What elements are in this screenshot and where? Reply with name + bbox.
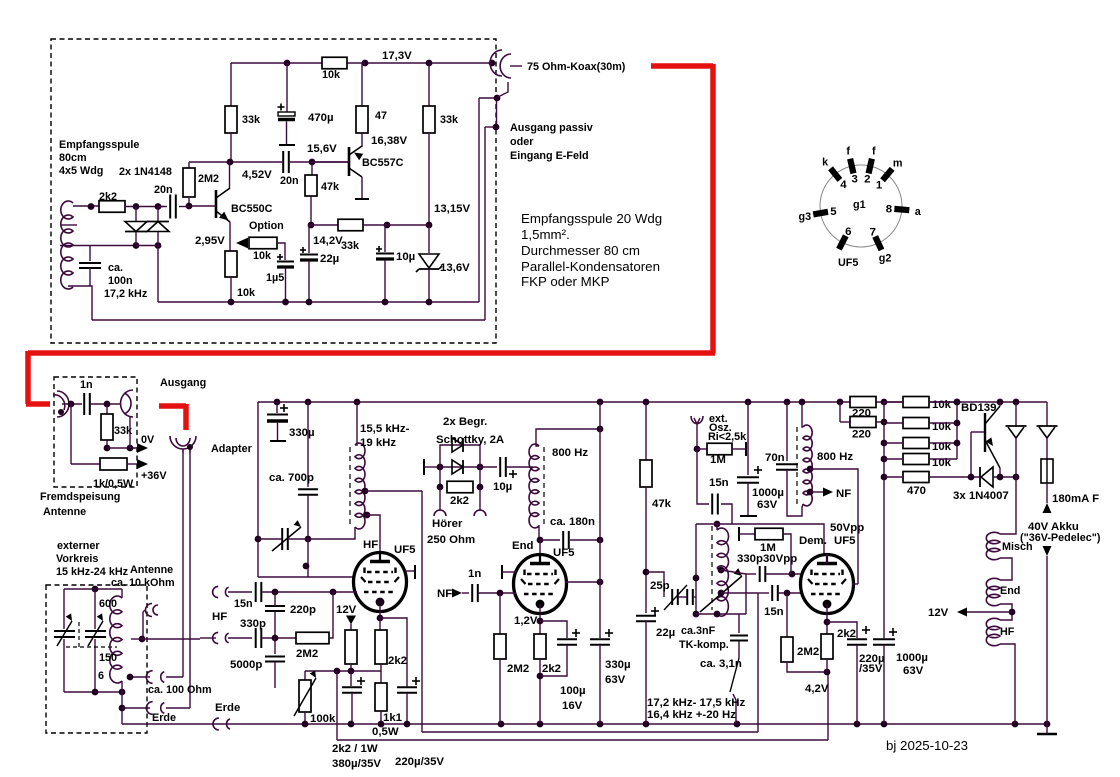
wire return rail 3 xyxy=(337,739,828,741)
svg-text:4x5 Wdg: 4x5 Wdg xyxy=(59,165,103,177)
plus sign 220u35 xyxy=(862,629,870,631)
wire top rail 17,3V xyxy=(231,62,322,64)
node 2k2 lim right xyxy=(477,484,484,491)
node base-diode row xyxy=(968,474,975,481)
node gnd 2k2 End xyxy=(537,721,544,728)
wire ausgang stub xyxy=(485,126,496,128)
terminal bar 1M dem xyxy=(738,527,740,541)
svg-text:15,6V: 15,6V xyxy=(307,143,337,155)
wire 1M dem left xyxy=(739,533,755,535)
capacitor C 1u5 xyxy=(277,261,294,263)
wire rail3 riser right xyxy=(827,672,829,740)
wire 25p-3nF link xyxy=(678,596,687,598)
svg-text:Empfangsspule 20 Wdg: Empfangsspule 20 Wdg xyxy=(521,211,662,226)
plus sign 10u End xyxy=(509,473,517,475)
resistor R 470 xyxy=(903,472,929,483)
wire diode to nodes xyxy=(993,476,1016,478)
wire 33k1 bottom lead xyxy=(230,133,232,162)
svg-text:4,52V: 4,52V xyxy=(242,169,272,181)
arrowhead BC550C emitter xyxy=(219,212,229,221)
svg-text:f: f xyxy=(846,145,850,157)
wire 220u bottom lead xyxy=(406,693,408,724)
wire BC550C emitter lead xyxy=(229,222,231,251)
wire BC550C collector riser xyxy=(229,162,231,188)
wire 10kp1 leads xyxy=(884,401,903,403)
svg-text:Dem.: Dem. xyxy=(799,535,827,547)
wire 700p to g2 wire xyxy=(307,539,309,577)
resistor R 10k p3 xyxy=(903,438,929,449)
wire 47k top lead xyxy=(311,162,313,175)
svg-text:ca.3nF: ca.3nF xyxy=(681,625,716,637)
wire fremd center xyxy=(62,403,82,405)
svg-text:2x 1N4148: 2x 1N4148 xyxy=(119,166,172,178)
node dem cathode a xyxy=(824,619,831,626)
resistor R 47 xyxy=(356,106,368,133)
svg-text:47: 47 xyxy=(375,110,387,122)
wire 33k fremd top lead xyxy=(106,404,108,414)
wire preamp gnd to coax shield xyxy=(479,97,497,99)
resistor R 10k emitter xyxy=(225,251,237,277)
resistor R 47k main xyxy=(640,460,652,487)
node gnd 330u63 xyxy=(597,721,604,728)
wire 3n1 lead2 xyxy=(738,641,740,658)
capacitor C 330u main xyxy=(267,414,288,416)
capacitor C 10u preamp xyxy=(376,253,394,255)
wire dem g2 feed xyxy=(852,583,858,585)
node HF trafo tap1 xyxy=(362,488,369,495)
svg-text:25p: 25p xyxy=(650,580,670,592)
node gnd 100k xyxy=(302,721,309,728)
connector Hoerer a xyxy=(434,510,446,516)
wire 2M2dem bottom xyxy=(787,662,827,672)
svg-text:13,6V: 13,6V xyxy=(440,262,470,274)
node HF trafo tap2 xyxy=(364,512,371,519)
wire zener top lead xyxy=(428,225,430,253)
wire 220u35 top xyxy=(827,622,857,638)
capacitor C variable trim2 xyxy=(85,630,106,632)
svg-text:14,2V: 14,2V xyxy=(313,235,343,247)
wire 15,6V node line xyxy=(289,161,349,163)
plus sign 1000u63 br xyxy=(889,631,897,633)
wire output shield drop xyxy=(129,416,131,448)
wire 10kp2 right xyxy=(929,422,957,424)
svg-text:33k: 33k xyxy=(341,240,360,252)
connector HF in b pair xyxy=(213,632,229,643)
svg-text:470µ: 470µ xyxy=(308,112,334,124)
inductor Vorkreis coil xyxy=(110,596,122,683)
node base-2M2 junction xyxy=(186,203,193,210)
svg-text:Empfangsspule: Empfangsspule xyxy=(59,139,139,151)
node 14,2V xyxy=(308,222,315,229)
wire 25p branch lead xyxy=(646,572,664,597)
wire 180n right xyxy=(570,539,600,541)
wire 330u63 bottom xyxy=(599,645,601,724)
wire 0V row xyxy=(107,447,137,449)
svg-text:15,5 kHz-: 15,5 kHz- xyxy=(360,423,410,435)
capacitor C 20n interstage xyxy=(282,151,284,173)
wire osc coil top lead xyxy=(716,524,718,530)
svg-text:15n: 15n xyxy=(764,606,784,618)
arrowhead 12V xyxy=(957,608,967,617)
wire 1k1 bottom xyxy=(380,711,382,724)
node bus 477 xyxy=(881,474,888,481)
svg-text:100n: 100n xyxy=(108,275,133,287)
dashed core HF trafo xyxy=(349,447,351,527)
wire 100u top link xyxy=(540,621,567,638)
node gnd 1k1 xyxy=(378,721,385,728)
wire tap to dem g2 xyxy=(810,469,858,584)
svg-text:HF: HF xyxy=(363,539,378,551)
node rail 70n xyxy=(784,399,791,406)
wire 22u bottom lead xyxy=(308,261,310,302)
wire coax shield tail xyxy=(498,82,508,97)
terminal bar limiter xyxy=(423,459,425,475)
resistor R 47k preamp xyxy=(305,175,317,196)
wire in2 to 330p xyxy=(228,637,252,639)
resistor R 10k option xyxy=(249,237,277,249)
svg-text:3: 3 xyxy=(852,174,858,186)
wire BC557C collector lead xyxy=(361,177,363,198)
svg-text:Durchmesser 80 cm: Durchmesser 80 cm xyxy=(521,243,640,258)
svg-text:Fremdspeisung: Fremdspeisung xyxy=(40,491,120,503)
node ext osz xyxy=(694,446,701,453)
tube socket UF5 pins xyxy=(880,167,894,182)
node rail 10k xyxy=(954,399,961,406)
resistor R 2k2 HF cathode xyxy=(375,630,387,664)
wire 700p bottom lead xyxy=(307,495,309,539)
wire hoerer lead a xyxy=(439,487,441,511)
capacitor C 330p xyxy=(255,628,257,648)
wire diode riser right xyxy=(157,207,159,222)
wire 10kp4 left xyxy=(884,458,903,460)
diode D 3x1N4007 xyxy=(979,467,981,487)
wire heater link3 xyxy=(1000,604,1012,620)
terminal bar 1M osc xyxy=(745,442,747,456)
wire 10u top lead xyxy=(385,225,387,252)
node rail HF trafo xyxy=(354,399,361,406)
node 2M2 grid xyxy=(330,589,337,596)
capacitor C 220u 35V xyxy=(847,638,867,640)
svg-text:220: 220 xyxy=(852,429,871,441)
wire heater link2 xyxy=(1000,558,1012,580)
node basebus a xyxy=(954,399,961,406)
wire osc tap2 link xyxy=(721,592,758,594)
resistor R 33k fremd xyxy=(101,414,113,440)
wire limiter top branch xyxy=(440,445,480,467)
node End plate xyxy=(537,537,544,544)
svg-text:Hörer: Hörer xyxy=(432,518,463,530)
svg-text:2M2: 2M2 xyxy=(507,663,529,675)
svg-text:75 Ohm-Koax(30m): 75 Ohm-Koax(30m) xyxy=(527,61,626,73)
wire 1u5 bottom lead xyxy=(285,268,287,302)
plus sign 22u preamp xyxy=(300,249,306,251)
resistor R 1M dem xyxy=(755,528,783,540)
wire vorkreis coil top xyxy=(121,589,123,598)
svg-text:HF: HF xyxy=(1000,626,1015,638)
svg-text:1M: 1M xyxy=(710,454,726,466)
wire 2M2 bottom lead xyxy=(188,197,190,206)
svg-text:NF: NF xyxy=(437,588,452,600)
wire 22u top lead xyxy=(309,225,311,253)
wire tap1 to 330p xyxy=(721,570,746,574)
node gnd heater xyxy=(1012,721,1019,728)
connector HF in a pair xyxy=(213,586,229,597)
node dem cathode b xyxy=(824,669,831,676)
svg-text:ca. 180n: ca. 180n xyxy=(550,516,595,528)
node End g2 xyxy=(597,579,604,586)
node 12V tap xyxy=(1009,609,1016,616)
node emitter diode xyxy=(997,474,1004,481)
svg-text:1M: 1M xyxy=(760,542,776,554)
wire fremd 1n to out xyxy=(90,403,120,405)
wire End trafo bottom xyxy=(538,525,540,540)
node basebus b xyxy=(954,420,961,427)
wire HF grid cap xyxy=(405,570,414,572)
node heater top xyxy=(1013,474,1020,481)
wire coax stub xyxy=(510,65,522,67)
node osc left a xyxy=(693,575,700,582)
wire BC550C base lead xyxy=(189,205,216,207)
wire 4,52V node line xyxy=(189,161,283,163)
capacitor C 15n osc xyxy=(711,494,713,515)
capacitor C 15n input xyxy=(255,582,257,602)
wire 33k2 top lead xyxy=(428,63,430,106)
svg-text:20n: 20n xyxy=(154,184,173,196)
wire BD139 collector xyxy=(999,402,1001,406)
wire 2M2 top lead xyxy=(188,162,190,168)
capacitor C 220u HF xyxy=(397,686,417,688)
node rail NF trafo xyxy=(799,399,806,406)
svg-text:220p: 220p xyxy=(290,604,316,616)
capacitor C 10u End xyxy=(499,457,501,477)
wire heater bottom xyxy=(1000,644,1015,724)
dashed enclosure Vorkreis xyxy=(46,585,147,733)
svg-text:1,5mm².: 1,5mm². xyxy=(521,227,570,242)
wire coil bottom drop xyxy=(121,681,123,724)
node 100u link xyxy=(537,673,544,680)
node gnd 380u xyxy=(348,721,355,728)
plus sign 330u63 xyxy=(605,632,613,634)
wire 10kp4 right xyxy=(929,458,957,460)
svg-text:2k2: 2k2 xyxy=(99,191,117,203)
wire 470u top lead xyxy=(286,63,288,113)
arrowhead BC557C emitter xyxy=(354,153,363,161)
node gnd 22u xyxy=(643,721,650,728)
wire 33k2 bottom lead xyxy=(428,133,430,225)
wire 220b left lead xyxy=(840,421,850,423)
wire erde hook stem xyxy=(122,707,150,709)
node x308 mid xyxy=(303,563,310,570)
wire 33k fremd bottom xyxy=(106,440,108,448)
svg-text:13,15V: 13,15V xyxy=(434,203,471,215)
node 0V left xyxy=(104,445,111,452)
wire osc to dem plate xyxy=(696,524,827,554)
diode D Schottky b xyxy=(452,460,463,474)
plus sign 220u HF xyxy=(412,680,420,682)
resistor R 2k2/1W dropper xyxy=(345,630,357,664)
wire 330p to node xyxy=(262,637,296,639)
svg-text:2k2: 2k2 xyxy=(837,628,856,640)
svg-text:2M2: 2M2 xyxy=(198,173,219,185)
svg-text:Antenne: Antenne xyxy=(130,564,173,576)
wire End grid cap xyxy=(502,571,516,573)
capacitor C 70n xyxy=(776,463,798,465)
capacitor C 330u 63V xyxy=(590,638,610,640)
wire antenne hook stem xyxy=(143,610,145,639)
resistor R 33k right xyxy=(423,106,435,133)
svg-text:33k: 33k xyxy=(242,114,261,126)
resistor R 33k left xyxy=(225,106,237,133)
node rail BD139 C xyxy=(997,399,1004,406)
wire 10kp3 right xyxy=(929,442,957,444)
wire 380u top lead xyxy=(350,671,352,686)
wire 1000u63br bottom xyxy=(883,645,885,724)
node 330p-2M2 xyxy=(272,635,279,642)
wire bus 884 xyxy=(883,402,885,639)
svg-text:10k: 10k xyxy=(322,69,341,81)
wire D-b top xyxy=(1046,402,1048,426)
node rail 220 xyxy=(837,399,844,406)
wire 13,15V link xyxy=(387,224,429,226)
wire End trafo top xyxy=(536,429,600,446)
wire dem plate lead xyxy=(826,554,828,564)
arrowhead trimmer HF xyxy=(294,520,301,527)
svg-text:33k: 33k xyxy=(440,114,459,126)
node bus 443 xyxy=(881,440,888,447)
antenna Adapter symbol xyxy=(170,436,196,449)
wire limiter mid xyxy=(440,466,480,468)
wire HF trafo top xyxy=(355,402,357,445)
node limiter right xyxy=(477,464,484,471)
svg-text:17,2 kHz- 17,5 kHz: 17,2 kHz- 17,5 kHz xyxy=(647,697,745,709)
wire top rail mid xyxy=(347,62,492,64)
svg-text:FKP oder MKP: FKP oder MKP xyxy=(521,274,610,289)
wire x746 drop xyxy=(745,574,747,614)
wire vorkreis bottom xyxy=(64,691,122,693)
wire coil lower tap xyxy=(60,245,136,247)
node rail bus xyxy=(881,399,888,406)
terminal bar HF grid cap xyxy=(414,565,416,579)
node gnd zener xyxy=(426,299,433,306)
wire 100k top lead xyxy=(304,671,306,680)
wire NF out xyxy=(810,491,826,493)
wire coil mid stub xyxy=(61,224,77,226)
node osc coil bottom xyxy=(714,611,721,618)
svg-text:1n: 1n xyxy=(468,568,481,580)
svg-text:600: 600 xyxy=(99,598,117,610)
svg-text:Adapter: Adapter xyxy=(211,443,253,455)
inductor Empfangsspule coil xyxy=(61,201,73,289)
wire trimmer left lead xyxy=(258,538,282,540)
wire base bus xyxy=(956,402,958,459)
node 180n right xyxy=(597,537,604,544)
wire BC557C base lead xyxy=(312,161,349,163)
node osc tap2 xyxy=(718,590,725,597)
svg-text:22µ: 22µ xyxy=(320,253,339,265)
svg-text:2x Begr.: 2x Begr. xyxy=(443,416,487,428)
node diode right bottom xyxy=(155,242,162,249)
node rail heater xyxy=(1013,399,1020,406)
wire HF cathode branch xyxy=(380,618,407,687)
wire 5000p bottom lead xyxy=(274,662,276,688)
switch ca 3,1n xyxy=(730,658,739,692)
node diode left bottom xyxy=(133,242,140,249)
arrowhead NF End xyxy=(452,589,462,598)
plate bar 470u bottom xyxy=(279,144,295,146)
node 700p-trimmer xyxy=(305,536,312,543)
resistor R 10k top xyxy=(322,57,347,69)
wire limiter bot branch b xyxy=(479,467,481,487)
wire red coax run xyxy=(651,63,713,69)
node osc tap1 xyxy=(718,567,725,574)
plus sign 100u xyxy=(572,632,580,634)
wire coil 100ohm tap xyxy=(128,676,150,678)
wire osc left vert xyxy=(695,524,697,614)
arrowhead 0V xyxy=(137,443,148,453)
node vorkreis bottom trim2 xyxy=(92,689,99,696)
svg-text:ca. 700p: ca. 700p xyxy=(269,472,314,484)
svg-text:k: k xyxy=(822,157,829,169)
capacitor C 25p trimmer xyxy=(671,589,673,605)
plus sign 380u xyxy=(357,680,365,682)
wire 1n to grid xyxy=(478,592,516,594)
plus sign 1000u63 xyxy=(754,469,762,471)
wire tap1 to x422 xyxy=(365,490,422,492)
resistor R 2k2 End xyxy=(534,634,546,659)
plate bar 330u bottom xyxy=(270,440,286,442)
svg-text:80cm: 80cm xyxy=(59,152,87,164)
capacitor C 20n input xyxy=(169,195,171,219)
svg-text:externer: externer xyxy=(57,540,100,552)
wire 100n top lead xyxy=(89,246,91,262)
svg-text:22µ: 22µ xyxy=(656,627,675,639)
svg-text:6: 6 xyxy=(845,226,851,238)
wire tap2 to plate xyxy=(367,515,380,556)
svg-text:330µ: 330µ xyxy=(605,659,631,671)
wire 15n2 right xyxy=(778,592,803,594)
svg-text:7: 7 xyxy=(870,226,876,238)
resistor R 220 a xyxy=(850,397,876,408)
node gnd 1u5 xyxy=(282,299,289,306)
svg-text:8: 8 xyxy=(886,203,892,215)
plus sign 330u main xyxy=(280,407,288,409)
resistor R 1k 0,5W xyxy=(100,458,127,470)
node junction rail-470u xyxy=(284,60,291,67)
dashed core osc coil xyxy=(711,526,713,610)
svg-text:ca. 100 Ohm: ca. 100 Ohm xyxy=(148,684,212,696)
svg-text:UF5: UF5 xyxy=(553,547,575,559)
wire adapter leg1 xyxy=(182,453,184,677)
dashed core NF trafo xyxy=(796,427,798,504)
transistor Q BD139 xyxy=(984,413,986,452)
wire heater top xyxy=(1000,477,1016,534)
svg-text:UF5: UF5 xyxy=(394,544,416,556)
inductor heater HF xyxy=(986,618,1000,645)
node fremd 1n left xyxy=(68,401,75,408)
dashed core End trafo xyxy=(543,447,545,524)
wire option right lead xyxy=(277,243,285,260)
inductor heater End xyxy=(986,578,1000,605)
node coil mid tap xyxy=(139,636,146,643)
wire dropper bottom xyxy=(350,664,352,671)
node adapter xyxy=(187,444,193,450)
node gnd battery xyxy=(1044,721,1051,728)
wire BD139 base xyxy=(971,431,985,433)
wire vorkreis top xyxy=(64,588,122,590)
wire 47k bottom lead xyxy=(310,196,312,225)
capacitor C 470u polarized xyxy=(278,112,295,116)
svg-text:HF: HF xyxy=(212,611,227,623)
